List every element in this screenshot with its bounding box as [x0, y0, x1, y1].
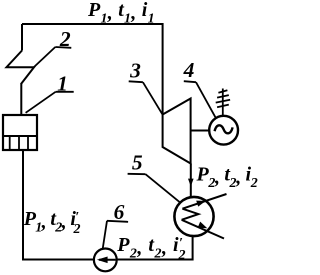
wire: turbine inlet downcomer [162, 23, 164, 115]
arrow: cooling water flow lower [198, 222, 208, 229]
generator G4: grid tick 3 [216, 100, 230, 103]
svg-text:5: 5 [132, 151, 143, 175]
label leader: callout 3 underline [129, 80, 143, 83]
wire: condenser outlet leg down to bottom run [192, 235, 194, 261]
label leader: callout 6 line to pump [103, 221, 107, 249]
generator G4: AC tilde symbol [215, 125, 233, 133]
svg-text:3: 3 [129, 59, 141, 83]
svg-text:P1, t2, i′2: P1, t2, i′2 [23, 208, 81, 237]
condenser C5: cooling water outlet line lower right [182, 220, 224, 239]
label leader: callout 4 line to generator [196, 82, 216, 117]
turbine T3: trapezoid body [163, 99, 191, 164]
pump P6: flow arrow shaft [99, 259, 116, 261]
arrow: cooling water flow upper [196, 201, 206, 207]
svg-text:P1, t1, i1: P1, t1, i1 [87, 0, 155, 27]
svg-text:6: 6 [114, 200, 125, 224]
wire: bottom condensate run from left corner through pump to condenser leg [22, 259, 193, 261]
superheater 2: zigzag break symbol [7, 51, 35, 85]
condenser C5: cooling water inlet line upper right [182, 194, 226, 209]
label leader: callout 2 underline [55, 46, 71, 49]
wire: feedwater downcomer on left, boiler bottom to bottom run [22, 150, 24, 261]
generator G4: grid tick 1 [218, 90, 227, 93]
label leader: callout 4 underline [184, 81, 196, 82]
wire: turbine exhaust into condenser [190, 164, 192, 198]
svg-text:P2, t2, i2: P2, t2, i2 [196, 163, 258, 191]
svg-text:1: 1 [57, 72, 68, 96]
generator G4: grid tick 4 [217, 105, 229, 108]
wire: left riser upper segment from corner down to superheater zigzag [21, 24, 23, 51]
label leader: callout 3 line to turbine inlet [143, 82, 163, 114]
svg-text:2: 2 [59, 27, 71, 51]
boiler B1: grate divider b [18, 136, 20, 150]
boiler B1: furnace grate top line [3, 135, 37, 137]
pump P6: circle body [94, 249, 117, 272]
label leader: callout 6 underline [107, 221, 128, 222]
svg-text:4: 4 [183, 58, 195, 82]
wire: top steam header P1,t1,i1 from riser corner to turbine downcomer [22, 23, 163, 25]
generator G4: grid lead vertical [222, 89, 224, 116]
condenser C5: cooling coil zigzag [182, 209, 199, 220]
boiler B1: grate divider a [9, 136, 11, 150]
label leader: callout 5 underline [128, 173, 146, 175]
boiler B1: outer shell [3, 115, 37, 150]
generator G4: circle body [209, 116, 238, 145]
label leader: callout 1 line to boiler [26, 92, 56, 113]
arrow: pump flow head pointing left [97, 257, 108, 264]
label leader: callout 2 line to zigzag [34, 47, 55, 67]
label leader: callout 5 line to condenser [146, 174, 181, 203]
arrow: exhaust steam flow into condenser [188, 179, 194, 187]
wire: riser lower segment from zigzag into boiler top [20, 83, 22, 116]
wire: generator shaft coupling [191, 130, 210, 132]
condenser C5: circle shell [174, 197, 213, 236]
boiler B1: grate divider c [27, 136, 29, 150]
label leader: callout 1 underline [56, 91, 74, 93]
generator G4: grid tick 2 [217, 95, 229, 98]
